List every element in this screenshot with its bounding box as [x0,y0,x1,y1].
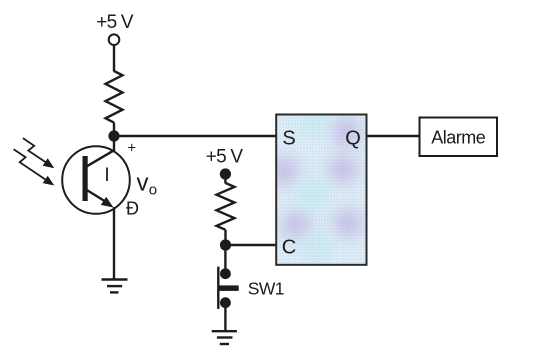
node collector junction [108,130,119,141]
switch SW1 actuator [219,285,238,291]
wire dot to R2 [224,174,226,184]
power terminal dot (middle +5V) [220,168,231,179]
svg-text:o: o [149,182,157,199]
ground (left) [102,278,128,280]
svg-text:I: I [104,165,109,186]
emitter lead with arrow [87,190,105,201]
latch box border [276,115,366,265]
svg-text:Q: Q [345,128,361,150]
resistor R1 [106,71,123,123]
wire Q to alarm [367,135,420,137]
switch SW1 top contact [220,268,231,279]
switch SW1 bottom contact [220,297,231,308]
node2 junction [220,239,231,250]
svg-text:v: v [137,170,149,197]
power terminal circle (left +5V) [109,34,120,45]
resistor R2 [217,183,235,230]
svg-text:Đ: Đ [126,199,139,219]
svg-text:C: C [282,237,296,259]
wire node2 to C input [226,244,278,246]
alarm box [420,118,498,157]
svg-text:+5 V: +5 V [96,12,134,33]
svg-text:+5 V: +5 V [206,147,244,168]
wire R2 to node2 [224,230,226,245]
collector lead (vertical+diagonal) [113,136,115,151]
wire node2 to switch [224,245,226,269]
svg-text:SW1: SW1 [248,279,284,299]
wire emitter to ground [113,207,115,280]
light arrow 1 (upper) [23,138,47,163]
light arrow 2 (lower) [14,149,47,180]
wire R1 to collector node [113,123,115,136]
phototransistor circle [62,146,130,214]
wire switch to ground [224,303,226,332]
switch SW1 plate [217,267,219,309]
wire terminal to R1 [113,45,115,71]
svg-text:Alarme: Alarme [431,128,486,148]
latch box fill [277,116,366,264]
svg-text:S: S [282,128,295,150]
ground (middle) [212,330,237,332]
svg-text:+: + [127,139,136,156]
phototransistor base bar [83,156,88,201]
wire node to S input [114,135,277,137]
